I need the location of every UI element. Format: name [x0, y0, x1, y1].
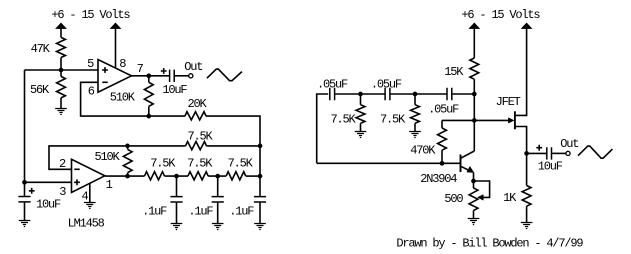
- wire ladder 1-2: [165, 175, 189, 177]
- resistor 7.5K shunt 2: [414, 94, 416, 105]
- emitter arrowhead: [467, 166, 474, 172]
- svg-text:5: 5: [87, 57, 94, 71]
- power arrow +V (15K): [469, 23, 479, 29]
- svg-text:8: 8: [119, 57, 126, 71]
- minus input U1b: [74, 168, 79, 170]
- svg-text:7.5K: 7.5K: [228, 156, 254, 170]
- node chain 2: [413, 92, 418, 97]
- resistor 7.5K shunt 1: [360, 94, 362, 105]
- op-amp U1a LM1458 pins 5-8: [98, 60, 132, 93]
- JFET drain wire: [516, 28, 527, 115]
- svg-text:.05uF: .05uF: [428, 102, 459, 116]
- plus input U1a: [102, 67, 108, 73]
- wire U1a output: [132, 75, 170, 77]
- svg-text:Out: Out: [184, 60, 202, 74]
- transistor 2N3904 base bar: [460, 155, 462, 173]
- JFET source wire: [516, 127, 527, 154]
- resistor 500 pot: [473, 181, 475, 188]
- wire left rail: [24, 70, 26, 182]
- svg-text:.1uF: .1uF: [229, 205, 254, 219]
- svg-text:15K: 15K: [444, 65, 464, 79]
- ground .1uF 3: [254, 224, 266, 230]
- svg-text:.05uF: .05uF: [371, 77, 402, 91]
- capacitor 10uF output right: [547, 147, 552, 159]
- power arrow +V (47K): [56, 23, 66, 29]
- svg-text:470K: 470K: [410, 144, 436, 158]
- svg-text:LM1458: LM1458: [68, 217, 105, 231]
- wire to 20K: [149, 115, 185, 117]
- waveform triangle out right: [578, 146, 612, 158]
- ground shunt 1: [355, 132, 367, 138]
- node chain 1: [358, 92, 363, 97]
- ground .1uF 1: [171, 224, 183, 230]
- resistor 20K: [185, 112, 206, 120]
- node U1a output: [146, 73, 151, 78]
- capacitor .05uF 3: [447, 88, 452, 100]
- wire cap to terminal right: [551, 152, 565, 154]
- node bias divider: [59, 68, 64, 73]
- wire cap to ground: [24, 203, 26, 221]
- wire riser lower: [259, 146, 261, 176]
- svg-text:510K: 510K: [110, 90, 136, 104]
- svg-text:+6 - 15 Volts: +6 - 15 Volts: [51, 8, 130, 22]
- wire pin 2 feedback: [49, 146, 128, 169]
- svg-text:7.5K: 7.5K: [380, 112, 406, 126]
- wire cap2 node2: [390, 93, 447, 95]
- svg-text:+6 - 15 Volts: +6 - 15 Volts: [461, 8, 540, 22]
- wire ladder 2-3: [208, 175, 226, 177]
- node riser mid: [258, 144, 263, 149]
- ground pin 4: [84, 203, 96, 209]
- resistor 7.5K ladder 1: [145, 172, 165, 180]
- plus mark 10uF out: [161, 68, 167, 74]
- wire 7.5K to riser: [207, 145, 261, 147]
- resistor 7.5K feedback line: [186, 142, 207, 150]
- gate arrowhead: [508, 118, 514, 123]
- svg-text:10uF: 10uF: [162, 83, 187, 97]
- capacitor .05uF 2: [385, 88, 390, 100]
- plus mark 10uF bypass: [29, 188, 35, 194]
- svg-text:56K: 56K: [30, 83, 50, 97]
- wire source to cap: [527, 152, 547, 154]
- svg-text:500: 500: [444, 192, 463, 206]
- svg-text:7.5K: 7.5K: [150, 156, 176, 170]
- wire cap to terminal: [174, 75, 188, 77]
- node 510K top: [125, 144, 130, 149]
- node ladder end: [258, 174, 263, 179]
- node feedback junction: [146, 114, 151, 119]
- node source: [524, 151, 529, 156]
- svg-text:.05uF: .05uF: [317, 77, 348, 91]
- plus input U1b: [74, 179, 80, 185]
- svg-text:10uF: 10uF: [538, 160, 563, 174]
- svg-text:Out: Out: [560, 137, 578, 151]
- node emitter: [471, 179, 476, 184]
- wire ladder 3 end: [246, 175, 260, 177]
- svg-text:7.5K: 7.5K: [187, 156, 213, 170]
- resistor 470K: [441, 120, 443, 128]
- wire 20K to right riser: [206, 116, 260, 146]
- capacitor .1uF 3: [259, 176, 261, 196]
- node ladder 1: [174, 174, 179, 179]
- svg-text:.1uF: .1uF: [142, 205, 167, 219]
- plus mark 10uF right: [536, 145, 542, 151]
- capacitor .05uF 1: [330, 88, 335, 100]
- resistor 56K: [60, 70, 62, 76]
- wire emitter: [473, 173, 475, 181]
- resistor 15K: [470, 58, 479, 79]
- svg-text:510K: 510K: [95, 150, 121, 164]
- JFET channel bar: [514, 111, 516, 129]
- wire feedback line to 7.5K: [128, 145, 186, 147]
- pin 4 wire: [89, 183, 91, 202]
- wire collector riser: [473, 94, 475, 151]
- ground .1uF 2: [212, 224, 224, 230]
- minus input U1a: [102, 81, 107, 83]
- svg-text:20K: 20K: [188, 97, 208, 111]
- resistor 7.5K ladder 2: [188, 172, 208, 180]
- svg-text:6: 6: [88, 84, 95, 98]
- pot wiper arrowhead: [478, 195, 484, 201]
- svg-text:Drawn by - Bill Bowden - 4/7/9: Drawn by - Bill Bowden - 4/7/99: [396, 237, 583, 251]
- terminal Out left: [189, 74, 193, 78]
- node 510Kb bottom: [125, 174, 130, 179]
- ground 1K: [521, 223, 533, 229]
- capacitor .1uF 1: [176, 176, 178, 196]
- resistor 510K feedback U1a: [148, 76, 150, 83]
- node ladder 2: [215, 174, 220, 179]
- resistor 47K: [57, 37, 66, 57]
- op-amp U1b LM1458 pins 1-4: [72, 159, 105, 192]
- wire bias to pin5 and left rail: [25, 69, 99, 71]
- node collector-gate: [472, 118, 477, 123]
- ground 56K: [55, 109, 67, 115]
- capacitor 10uF output U1a: [170, 70, 175, 82]
- wire pot wiper: [474, 181, 490, 197]
- svg-text:2N3904: 2N3904: [420, 172, 457, 186]
- resistor 1K: [526, 153, 528, 185]
- wire chain left corner: [317, 94, 329, 163]
- svg-text:.1uF: .1uF: [188, 205, 213, 219]
- svg-text:7: 7: [137, 62, 144, 76]
- ground shunt 2: [409, 132, 421, 138]
- svg-text:7.5K: 7.5K: [331, 112, 357, 126]
- svg-text:47K: 47K: [31, 42, 51, 56]
- wire pin 3: [25, 181, 72, 183]
- ground 10uF bypass: [19, 221, 31, 227]
- wire cap3 node3: [452, 93, 475, 95]
- wire 470K top: [442, 119, 474, 121]
- resistor 510K feedback U1b: [127, 146, 129, 150]
- wire gate: [474, 119, 508, 121]
- power arrow +V (JFET): [521, 23, 531, 29]
- capacitor 10uF bypass: [24, 182, 26, 196]
- wire pin6 feedback: [81, 82, 149, 116]
- waveform triangle out left: [207, 69, 242, 81]
- pin 8 power wire: [115, 28, 117, 68]
- wire cap1 node1: [335, 93, 386, 95]
- svg-text:1: 1: [106, 178, 113, 192]
- resistor 7.5K ladder 3: [226, 172, 246, 180]
- transistor collector diagonal: [461, 151, 475, 158]
- capacitor .1uF 2: [217, 176, 219, 196]
- wire feedback bottom: [317, 162, 461, 164]
- svg-text:JFET: JFET: [496, 95, 521, 109]
- wire U1b output: [105, 175, 145, 177]
- svg-text:10uF: 10uF: [36, 198, 61, 212]
- node pin3 rail: [22, 180, 27, 185]
- node collector load: [472, 92, 477, 97]
- svg-text:4: 4: [82, 189, 89, 203]
- svg-text:3: 3: [59, 185, 66, 199]
- terminal Out right: [566, 151, 570, 155]
- node 470K bottom: [440, 161, 445, 166]
- ground 500 pot: [468, 219, 480, 225]
- svg-text:1K: 1K: [503, 191, 517, 205]
- transistor emitter diagonal: [461, 166, 472, 171]
- svg-text:7.5K: 7.5K: [188, 129, 214, 143]
